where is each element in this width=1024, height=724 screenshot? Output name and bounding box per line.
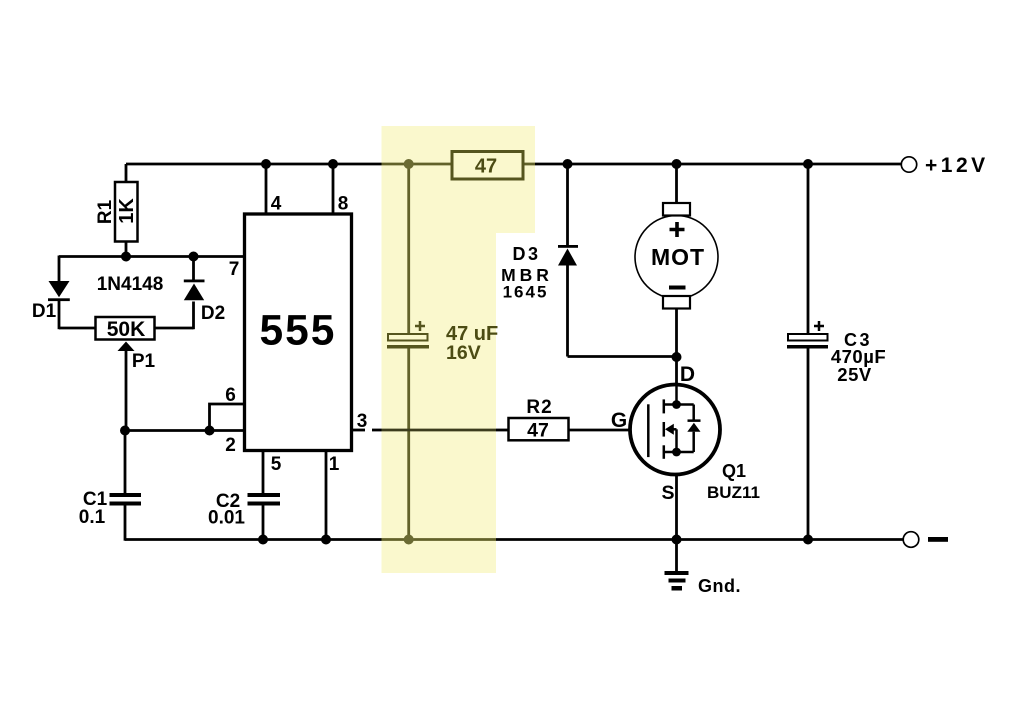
svg-text:2: 2 bbox=[225, 435, 236, 456]
svg-text:D1: D1 bbox=[32, 301, 57, 322]
svg-text:1N4148: 1N4148 bbox=[97, 274, 164, 295]
svg-text:555: 555 bbox=[260, 308, 337, 355]
svg-text:1: 1 bbox=[329, 454, 340, 475]
svg-text:R2: R2 bbox=[526, 397, 552, 418]
svg-text:50K: 50K bbox=[107, 318, 146, 341]
svg-text:BUZ11: BUZ11 bbox=[707, 483, 760, 502]
svg-text:0.01: 0.01 bbox=[208, 508, 245, 529]
svg-text:4: 4 bbox=[271, 194, 282, 215]
svg-text:Q1: Q1 bbox=[722, 461, 746, 481]
svg-text:3: 3 bbox=[357, 411, 368, 432]
svg-text:1K: 1K bbox=[116, 198, 138, 224]
svg-text:5: 5 bbox=[271, 454, 282, 475]
svg-text:Gnd.: Gnd. bbox=[698, 576, 741, 596]
svg-text:+12V: +12V bbox=[925, 154, 989, 177]
svg-text:6: 6 bbox=[225, 385, 236, 406]
svg-text:D3: D3 bbox=[512, 244, 540, 264]
svg-text:47: 47 bbox=[475, 156, 497, 178]
svg-text:MOT: MOT bbox=[651, 244, 705, 270]
svg-text:16V: 16V bbox=[446, 342, 481, 364]
svg-text:7: 7 bbox=[229, 259, 240, 280]
svg-text:0.1: 0.1 bbox=[79, 507, 106, 528]
svg-text:47: 47 bbox=[527, 420, 549, 442]
svg-text:8: 8 bbox=[338, 194, 349, 215]
svg-text:P1: P1 bbox=[132, 351, 156, 372]
svg-text:25V: 25V bbox=[837, 364, 872, 385]
svg-text:R1: R1 bbox=[95, 199, 116, 224]
svg-text:D2: D2 bbox=[201, 303, 225, 324]
svg-text:G: G bbox=[611, 409, 627, 432]
svg-text:S: S bbox=[661, 482, 674, 504]
svg-text:D: D bbox=[680, 363, 695, 386]
svg-text:1645: 1645 bbox=[503, 283, 549, 302]
